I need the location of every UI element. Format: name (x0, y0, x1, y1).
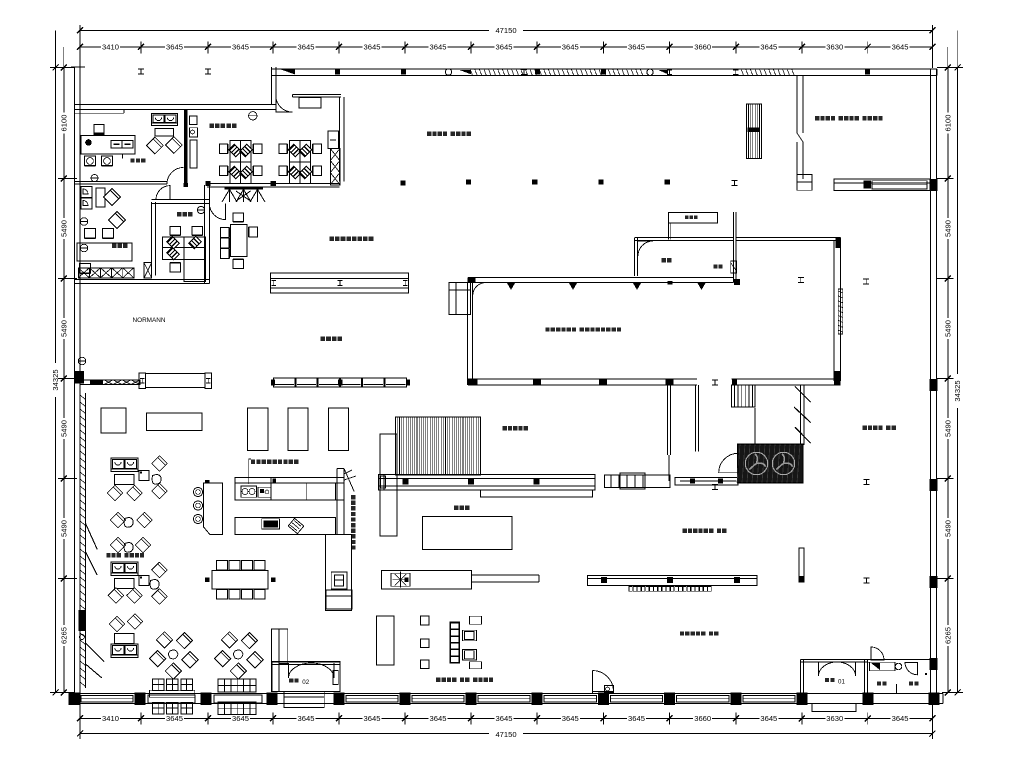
shelf above shuba (669, 213, 718, 224)
coat rack splays (224, 187, 262, 190)
door leaves left wall a (86, 523, 98, 549)
wall outer left (74, 67, 76, 704)
symbol circle meeting room (197, 206, 204, 213)
svg-text:3645: 3645 (496, 714, 513, 723)
dimension bottom segments (80, 717, 932, 719)
dimension extension lines (50, 67, 75, 69)
label qiangdian (909, 682, 913, 686)
dimension top segments (80, 46, 932, 48)
entrance menqu02 (272, 662, 340, 692)
window module bay 603 (611, 696, 663, 703)
wall outer top (272, 68, 938, 70)
marks bigroom top wall (507, 283, 515, 290)
svg-text:5490: 5490 (944, 520, 953, 537)
bar counter stools (204, 483, 223, 535)
dimension bottom total 47150 (80, 733, 932, 735)
table vert 2 (288, 408, 308, 451)
label shuba (662, 258, 666, 262)
svg-text:3645: 3645 (892, 43, 909, 52)
label lounge (106, 553, 110, 557)
kitchen counter sink (235, 478, 344, 501)
sofa group member area (450, 622, 460, 663)
wall kitchen vertical (336, 469, 338, 535)
stand tall bottom (377, 616, 395, 665)
wall symbols left (80, 218, 88, 226)
svg-text:3645: 3645 (562, 714, 579, 723)
svg-text:34325: 34325 (953, 380, 962, 401)
window module bay 669 (677, 696, 730, 703)
desk office1 reception (81, 136, 135, 155)
counter long under stripes (379, 474, 595, 490)
svg-text:5490: 5490 (60, 320, 69, 337)
svg-text:3645: 3645 (166, 43, 183, 52)
door leaves left wall b (86, 643, 105, 662)
wall shuba left (633, 238, 635, 276)
counter right room (834, 179, 930, 190)
symbol circle office1 (91, 175, 98, 182)
box below corridor (326, 590, 352, 609)
svg-text:02: 02 (302, 679, 309, 686)
folding door bay 1 (148, 695, 195, 703)
svg-text:3645: 3645 (298, 714, 315, 723)
label menqu02 (289, 679, 293, 683)
door bottom single (592, 671, 594, 694)
box dianxiang (731, 261, 737, 273)
door arc bigroom topleft (473, 283, 486, 296)
window module bay 74 (81, 696, 133, 703)
dimension right segments (947, 68, 949, 693)
band tall left (380, 434, 397, 536)
table thin long right (587, 575, 757, 585)
dark block fans (738, 444, 804, 482)
table fan left (381, 570, 471, 589)
wall hatch band left (79, 393, 81, 688)
ramp diagonal marks (795, 387, 811, 403)
svg-text:3645: 3645 (430, 714, 447, 723)
label dadianqu (454, 506, 458, 510)
label office1 (131, 159, 135, 163)
wall lower office right (204, 185, 206, 283)
wall step connector (271, 67, 273, 105)
conference table (230, 225, 247, 257)
marks top wall (335, 70, 340, 75)
striped block photo (747, 104, 762, 159)
svg-text:6265: 6265 (60, 627, 69, 644)
sofa group 4 (109, 616, 125, 632)
chair circle group 1 (182, 652, 198, 668)
cabinet office main top (299, 97, 321, 108)
column x-hatch office (330, 149, 339, 185)
window hatch top wall (470, 69, 473, 76)
svg-text:3660: 3660 (694, 43, 711, 52)
workstation cluster 2 (290, 141, 311, 184)
svg-text:3645: 3645 (496, 43, 513, 52)
svg-text:3645: 3645 (760, 714, 777, 723)
wall shuba right (732, 212, 734, 283)
wall bigroom bottom (468, 378, 697, 380)
label dianxiang (714, 265, 718, 269)
svg-text:3645: 3645 (892, 714, 909, 723)
dimension right total 34325 (957, 68, 959, 693)
interior grid marks (466, 179, 471, 184)
wall office main right (339, 97, 341, 182)
svg-text:3645: 3645 (232, 43, 249, 52)
stairs bigroom (731, 385, 755, 407)
table rect B (147, 413, 203, 431)
workstation cluster 1 (230, 141, 251, 184)
columns right wall (930, 179, 938, 191)
wall bigroom left (467, 283, 469, 385)
table left shelf (80, 380, 140, 385)
label office main (210, 124, 215, 129)
door arc room2 (210, 204, 226, 220)
door arc shuba (638, 241, 653, 256)
window module bay 339 (346, 696, 398, 703)
door arc office main (276, 96, 293, 113)
wall bigroom top left (468, 277, 734, 279)
table thin right of corridor (675, 478, 738, 485)
table sq A (101, 408, 126, 433)
wall stair bottom stub (754, 408, 756, 452)
sofa set office1 (152, 114, 178, 126)
window module bay 537 (544, 696, 597, 703)
svg-text:5490: 5490 (60, 220, 69, 237)
svg-text:34325: 34325 (51, 369, 60, 390)
window module bay 405 (412, 696, 464, 703)
svg-text:3660: 3660 (694, 714, 711, 723)
label member area (436, 678, 440, 682)
dot mark (925, 673, 927, 675)
door arc meeting room (156, 186, 170, 200)
label meeting room (177, 212, 181, 216)
label sink note (251, 460, 255, 464)
table row six segments (274, 378, 295, 387)
label kitchen vertical (351, 495, 355, 499)
wall office main bottom (207, 183, 340, 185)
wall outer bottom (75, 693, 944, 695)
stand small right (799, 548, 804, 582)
svg-text:5490: 5490 (944, 420, 953, 437)
svg-text:3645: 3645 (562, 43, 579, 52)
window module bay 471 (478, 696, 530, 703)
label photoroom (815, 116, 819, 120)
columns bottom wall (69, 693, 80, 706)
svg-text:47150: 47150 (495, 26, 516, 35)
shelf office1 top (75, 112, 125, 114)
label top showroom (427, 132, 431, 136)
columns bigroom bottom wall (533, 379, 541, 385)
table dadian (422, 517, 512, 550)
svg-text:6100: 6100 (60, 115, 69, 132)
svg-text:3630: 3630 (826, 714, 843, 723)
column black left wall (75, 371, 84, 384)
sofa group 3 (111, 562, 138, 576)
svg-text:47150: 47150 (495, 730, 516, 739)
dimension left segments (63, 68, 65, 693)
wall bigroom top right (736, 237, 841, 239)
wall outer right (930, 69, 932, 694)
svg-text:NORMANN: NORMANN (132, 317, 165, 324)
striped block clothes (396, 417, 481, 475)
label changxiao (321, 337, 326, 342)
label ruodian (877, 682, 881, 686)
svg-text:3410: 3410 (102, 714, 119, 723)
storage x-hatch (78, 268, 134, 278)
counter small segments (605, 475, 671, 487)
wall corridor left (667, 385, 669, 455)
svg-text:3645: 3645 (628, 43, 645, 52)
wall bigroom right (833, 241, 835, 381)
svg-text:3645: 3645 (298, 43, 315, 52)
desk lower office (77, 243, 132, 261)
desks meeting room (163, 237, 206, 260)
svg-text:6265: 6265 (944, 627, 953, 644)
wall stair corridor right (800, 385, 802, 445)
svg-text:5490: 5490 (944, 320, 953, 337)
svg-text:3645: 3645 (760, 43, 777, 52)
svg-text:3645: 3645 (628, 714, 645, 723)
entrance step menqu02 (284, 691, 324, 707)
svg-text:5490: 5490 (60, 420, 69, 437)
wall office top (75, 104, 276, 106)
dimension left total 34325 (55, 68, 57, 693)
wall corridor right (695, 385, 697, 451)
label bigroom (545, 327, 549, 331)
svg-text:3645: 3645 (364, 714, 381, 723)
svg-text:6100: 6100 (944, 115, 953, 132)
step menqu01 (812, 704, 856, 712)
sofa group 1 (111, 458, 138, 472)
svg-text:3645: 3645 (430, 43, 447, 52)
svg-text:3630: 3630 (826, 43, 843, 52)
window module bay 736 (743, 696, 795, 703)
wall lower office bottom (75, 279, 210, 281)
wall office1 partition black (184, 110, 188, 184)
table display long A (271, 273, 409, 293)
folding door bay 2 (214, 695, 262, 703)
svg-text:3645: 3645 (364, 43, 381, 52)
wall shuba top (635, 237, 733, 239)
table vert 1 (248, 408, 268, 451)
svg-text:3410: 3410 (102, 43, 119, 52)
label stripe zone (503, 426, 507, 430)
door arc office1 (167, 168, 184, 185)
svg-text:5490: 5490 (60, 520, 69, 537)
entrance menqu01 (800, 659, 802, 693)
svg-text:3645: 3645 (166, 714, 183, 723)
wall office1 bottom (75, 181, 168, 183)
corridor cabinet vertical (326, 535, 352, 611)
wall photoroom left (796, 75, 798, 133)
label lower office (112, 244, 116, 248)
symbol circle door (249, 112, 257, 120)
wall bigroom bottom right (731, 378, 840, 380)
label menqu01 (825, 678, 829, 682)
squares bottom trio (420, 616, 429, 625)
label liuxing (330, 237, 335, 242)
wall meeting room (151, 202, 153, 275)
railing strip bigroom right (838, 289, 842, 334)
chair trio rows (110, 512, 126, 528)
label shejilei (680, 631, 684, 635)
svg-text:3645: 3645 (232, 714, 249, 723)
column x lower office (144, 263, 152, 278)
cabinet office partition (189, 116, 197, 125)
wall office main top (292, 94, 341, 96)
black bar left wall (79, 610, 86, 631)
grid marks above office (138, 68, 144, 70)
table vert 3 (328, 408, 348, 451)
dimension top total 47150 (80, 29, 932, 31)
door arc dark block (719, 453, 739, 472)
svg-text:5490: 5490 (944, 220, 953, 237)
label renwen (863, 426, 867, 430)
label shenghuomeixue (683, 529, 687, 533)
chair circle group 2 (247, 652, 263, 668)
kitchen island (235, 517, 335, 534)
dining table 10 seats (212, 570, 268, 589)
closet bigroom left (449, 283, 470, 315)
svg-text:01: 01 (838, 679, 845, 686)
electrical rooms (868, 658, 931, 660)
